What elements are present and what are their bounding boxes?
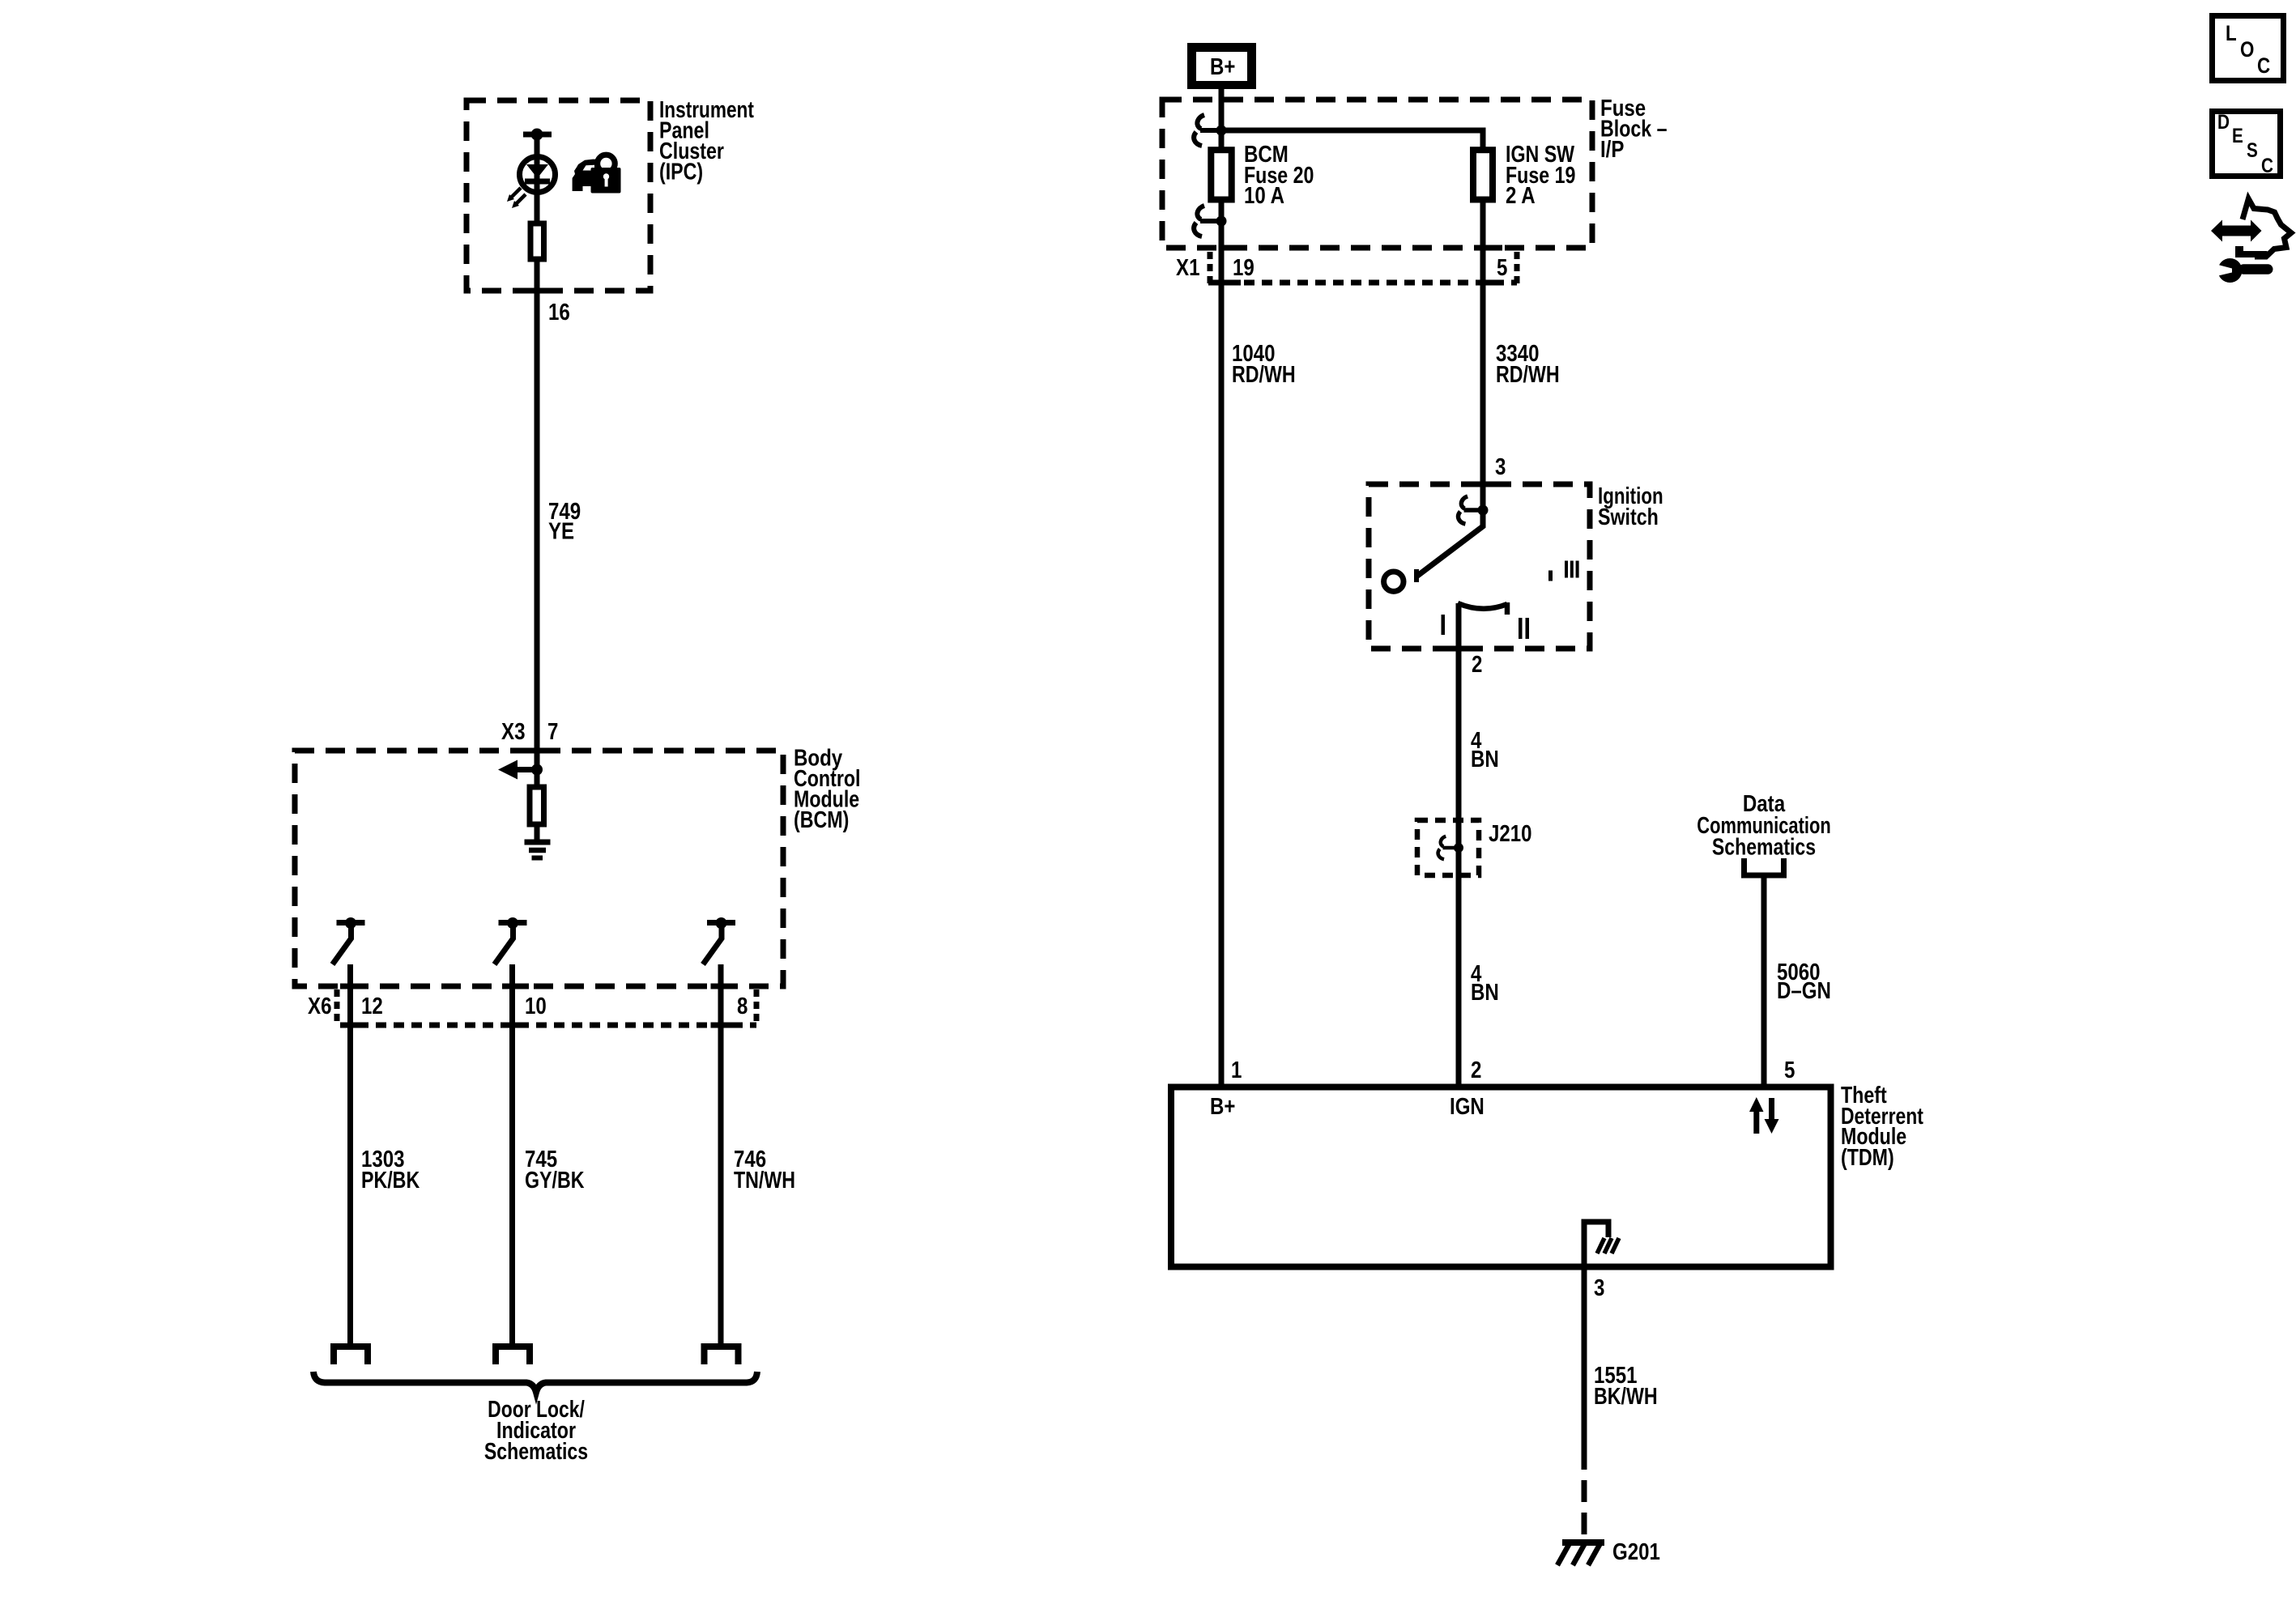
svg-text:BN: BN: [1471, 747, 1499, 772]
svg-text:Schematics: Schematics: [1712, 835, 1816, 861]
svg-text:3: 3: [1594, 1275, 1604, 1301]
svg-text:D–GN: D–GN: [1777, 978, 1831, 1004]
svg-text:C: C: [2261, 155, 2273, 177]
svg-text:5: 5: [1784, 1057, 1795, 1083]
svg-text:(BCM): (BCM): [794, 807, 849, 833]
svg-text:L: L: [2226, 21, 2237, 45]
svg-text:TN/WH: TN/WH: [734, 1168, 795, 1194]
svg-text:IGN: IGN: [1450, 1094, 1485, 1120]
svg-text:B+: B+: [1210, 54, 1235, 80]
svg-text:RD/WH: RD/WH: [1232, 362, 1296, 388]
svg-text:2: 2: [1471, 1057, 1481, 1083]
svg-text:10 A: 10 A: [1244, 183, 1284, 209]
svg-text:BK/WH: BK/WH: [1594, 1384, 1658, 1410]
svg-text:G201: G201: [1612, 1539, 1660, 1565]
svg-text:E: E: [2232, 125, 2243, 147]
svg-text:X1: X1: [1176, 255, 1200, 281]
svg-text:J210: J210: [1489, 821, 1532, 847]
svg-text:7: 7: [547, 719, 558, 745]
svg-text:PK/BK: PK/BK: [361, 1168, 420, 1194]
svg-text:X6: X6: [308, 994, 332, 1019]
svg-text:GY/BK: GY/BK: [525, 1168, 585, 1194]
svg-text:S: S: [2247, 139, 2258, 162]
svg-text:I/P: I/P: [1600, 137, 1624, 163]
svg-text:16: 16: [548, 300, 570, 326]
svg-text:C: C: [2257, 53, 2270, 78]
svg-text:B+: B+: [1210, 1094, 1235, 1120]
svg-text:3: 3: [1495, 454, 1506, 480]
svg-text:(TDM): (TDM): [1841, 1145, 1894, 1171]
svg-text:19: 19: [1233, 255, 1254, 281]
svg-text:YE: YE: [548, 519, 574, 545]
svg-text:8: 8: [737, 994, 748, 1019]
svg-text:2: 2: [1472, 652, 1482, 678]
svg-text:D: D: [2217, 111, 2230, 134]
svg-text:X3: X3: [501, 719, 526, 745]
svg-text:2 A: 2 A: [1506, 183, 1536, 209]
svg-text:Switch: Switch: [1598, 504, 1659, 530]
svg-text:10: 10: [525, 994, 547, 1019]
svg-text:RD/WH: RD/WH: [1496, 362, 1560, 388]
svg-text:O: O: [2240, 37, 2254, 62]
svg-text:Schematics: Schematics: [484, 1439, 588, 1465]
svg-text:BN: BN: [1471, 980, 1499, 1006]
svg-text:12: 12: [361, 994, 383, 1019]
svg-text:5: 5: [1497, 255, 1507, 281]
svg-text:(IPC): (IPC): [659, 160, 703, 185]
svg-text:1: 1: [1231, 1057, 1242, 1083]
